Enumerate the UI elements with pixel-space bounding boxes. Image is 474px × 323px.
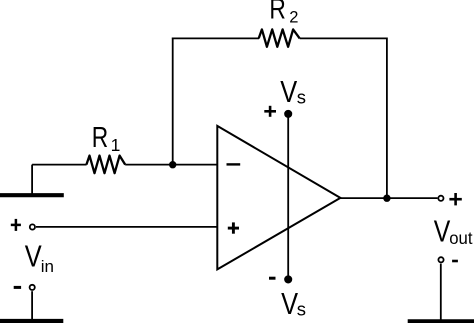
svg-text:V: V xyxy=(25,239,42,274)
svg-text:2: 2 xyxy=(289,9,298,27)
svg-text:1: 1 xyxy=(111,135,121,155)
svg-text:V: V xyxy=(434,214,451,248)
node +Vs (filled dot) xyxy=(284,110,292,118)
svg-text:s: s xyxy=(297,87,306,108)
svg-text:out: out xyxy=(449,227,472,248)
terminal Vout - (open circle) xyxy=(438,257,443,262)
label Vs top xyxy=(280,75,297,110)
svg-text:R: R xyxy=(269,0,285,25)
resistor R1 xyxy=(86,156,125,174)
label R1 xyxy=(92,120,108,153)
wire top-right (feedback top segment right of R2) xyxy=(300,37,387,39)
junction node (inverting input / feedback) xyxy=(169,161,176,168)
plus sign op-amp non-inverting input xyxy=(228,222,239,233)
ground bar lower-left xyxy=(0,319,63,323)
resistor R2 xyxy=(259,29,300,46)
wire non-inverting input xyxy=(36,226,217,228)
minus sign Vin xyxy=(14,286,21,289)
plus sign Vout xyxy=(449,193,461,205)
wire Vout - to ground xyxy=(440,264,442,320)
junction node output/feedback (filled dot) xyxy=(383,195,390,202)
label Vin xyxy=(25,239,42,274)
wire top-left (feedback top segment left of R2) xyxy=(172,37,259,39)
minus sign -Vs xyxy=(269,277,276,280)
terminal Vin + (open circle) xyxy=(30,224,35,229)
minus sign Vout xyxy=(452,260,458,263)
ground bar lower-right xyxy=(408,319,474,323)
wire R1 right (to inverting input) xyxy=(125,164,217,166)
terminal Vin - (open circle) xyxy=(30,285,35,290)
label Vs bottom xyxy=(281,286,298,321)
svg-text:V: V xyxy=(281,286,298,321)
wire feedback right vertical xyxy=(386,38,388,199)
node -Vs (filled dot) xyxy=(284,275,292,283)
plus sign Vin xyxy=(11,219,21,231)
plus sign +Vs xyxy=(264,106,276,117)
svg-text:in: in xyxy=(41,257,54,276)
op-amp U1 triangle xyxy=(217,126,340,270)
wire input ground stub vertical xyxy=(31,165,33,195)
svg-text:V: V xyxy=(280,75,297,110)
wire power vertical (+Vs to -Vs through op-amp) xyxy=(287,114,289,280)
svg-text:R: R xyxy=(92,120,108,153)
label R2 xyxy=(269,0,285,25)
wire feedback left vertical xyxy=(172,38,174,165)
wire output xyxy=(340,197,437,199)
terminal Vout + (open circle) xyxy=(438,196,443,201)
ground bar upper-left xyxy=(0,193,64,197)
minus sign op-amp inverting input xyxy=(227,163,241,165)
wire R1 left xyxy=(32,164,87,166)
label Vout xyxy=(434,214,451,248)
wire Vin - to ground xyxy=(31,291,33,320)
svg-text:s: s xyxy=(297,299,306,320)
